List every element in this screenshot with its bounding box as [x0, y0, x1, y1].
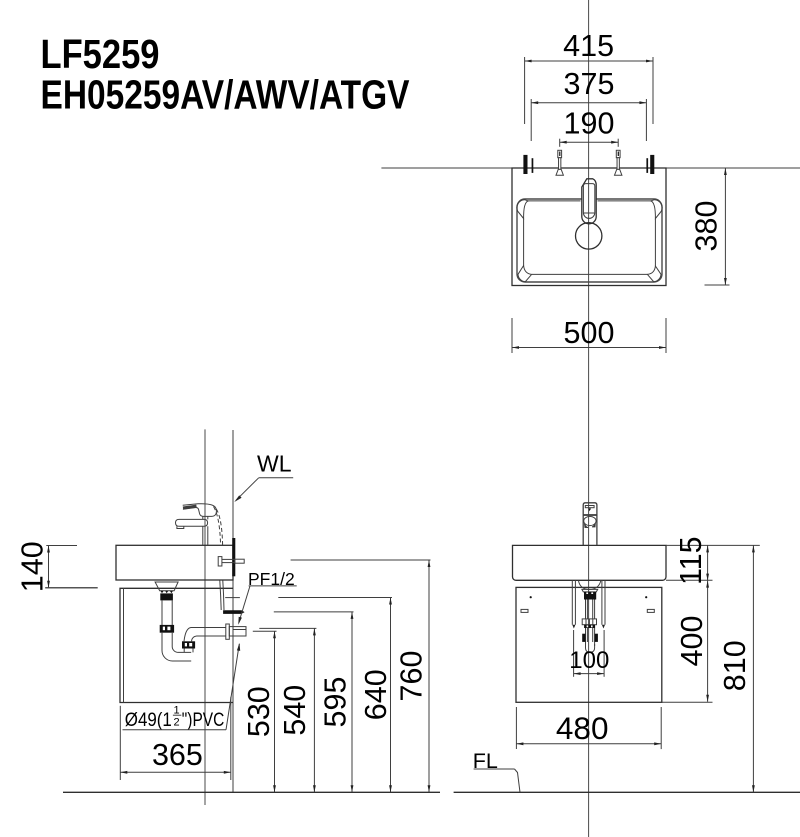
side view centerline — [204, 429, 206, 805]
WL label — [234, 451, 293, 503]
wall line (side) — [232, 430, 234, 792]
dimension 540 — [259, 628, 316, 792]
svg-text:115: 115 — [674, 536, 708, 585]
drain tailpipe upper (front) — [586, 600, 595, 619]
drain coupling ribbed (front) — [582, 619, 596, 625]
basin slab (front) — [513, 545, 667, 580]
wall mounting bolt left inner (plan) — [532, 158, 534, 173]
supply pipe right (front) — [602, 580, 605, 624]
svg-text:LF5259: LF5259 — [41, 31, 160, 77]
dimension 640 — [278, 598, 393, 793]
svg-text:")PVC: ")PVC — [182, 710, 225, 731]
svg-text:810: 810 — [718, 640, 752, 691]
dimension 595 — [274, 612, 354, 792]
dimension 400 (front right) — [675, 581, 709, 702]
dimension 380 (plan right) — [690, 168, 730, 285]
drain coupling dark band (front) — [584, 625, 595, 628]
faucet supply hoses above slab (dashed, side) — [214, 507, 221, 546]
basin bowl inner line top (plan) — [528, 200, 651, 202]
basin corner wedge top-left — [517, 200, 528, 219]
wall line (plan) — [381, 167, 800, 169]
floor line right — [454, 791, 800, 793]
dimension 760 — [291, 560, 431, 792]
svg-text:100: 100 — [569, 647, 609, 674]
drain outlet trapezoid (front) — [582, 589, 598, 592]
faucet body outline (plan) — [582, 179, 596, 224]
drain flange teeth (side) — [161, 591, 173, 593]
dimension 530 — [242, 631, 276, 792]
svg-text:140: 140 — [15, 541, 49, 592]
svg-text:595: 595 — [319, 677, 353, 728]
trap coupling nut (side, black) — [160, 625, 174, 633]
faucet inner line (plan) — [583, 184, 594, 219]
drain top nut (side, black) — [160, 593, 173, 600]
diameter 49 PVC label — [123, 643, 241, 731]
supply hoses below slab (side) — [220, 581, 221, 611]
drain hole circle (plan) — [576, 223, 602, 249]
cabinet front inner line (side) — [123, 588, 125, 702]
svg-text:760: 760 — [395, 651, 429, 702]
dimension 500 (plan bottom) — [512, 316, 666, 353]
faucet (side view) — [176, 504, 217, 545]
basin bowl inner line bottom — [532, 273, 647, 275]
basin bowl underside arc (front) — [578, 580, 601, 589]
wall drain stub (side) — [229, 627, 246, 636]
wall drain flange (side) — [226, 624, 230, 639]
svg-text:400: 400 — [675, 616, 709, 667]
drain flange under basin (side) — [155, 582, 178, 591]
FL label — [473, 749, 520, 792]
cabinet (front) — [516, 587, 662, 702]
wall mounting bolt right outer (plan) — [650, 155, 654, 174]
dimension 810 (front far right) — [718, 545, 755, 792]
dimension 415 (plan top) — [525, 29, 653, 124]
sink outer rectangle (plan) — [512, 168, 666, 286]
dimension 375 (plan) — [531, 67, 646, 141]
drain side tab left (front, black) — [582, 634, 585, 642]
PF1/2 label — [238, 569, 296, 625]
dimension 480 (front bottom) — [516, 707, 661, 749]
door pin dot right (front) — [645, 596, 647, 598]
supply pipe in wall (dark bar, side) — [232, 538, 235, 576]
hinge plate left (front) — [521, 609, 528, 612]
trap rising nut (side, black) — [182, 641, 195, 648]
drain side tab right (front, black) — [595, 634, 598, 642]
drain tailpipe lower (front) — [586, 628, 595, 646]
dimension 115 (front right) — [674, 536, 709, 585]
svg-text:500: 500 — [564, 316, 615, 350]
slab top extension line to right dims — [666, 544, 760, 546]
svg-text:EH05259AV/AWV/ATGV: EH05259AV/AWV/ATGV — [41, 71, 411, 117]
wall mounting bolt right inner (plan) — [646, 158, 648, 173]
basin slab (side) — [116, 545, 233, 580]
svg-text:2: 2 — [174, 716, 180, 728]
angle valve (side) — [218, 557, 244, 566]
svg-text:365: 365 — [152, 738, 203, 772]
faucet (front view) — [583, 503, 597, 545]
slab bottom extension line to right dims — [666, 579, 713, 581]
basin corner wedge bottom-right — [647, 266, 661, 282]
dimension 190 (plan) — [560, 107, 619, 147]
vertical centerline through plan and front views — [588, 0, 590, 837]
svg-text:WL: WL — [257, 451, 292, 477]
basin corner wedge bottom-left — [518, 266, 532, 282]
dimension 140 (side left) — [15, 541, 97, 592]
faucet hole bolt right (plan) — [615, 150, 622, 175]
svg-text:640: 640 — [359, 669, 393, 720]
svg-text:530: 530 — [242, 686, 276, 737]
faucet aerator chord (plan) — [584, 212, 595, 214]
basin bowl inner line left — [523, 219, 525, 266]
supply pipe left (front) — [572, 580, 575, 624]
hinge plate right (front) — [647, 609, 654, 612]
trap vertical pipe lower (side) — [162, 633, 172, 651]
door pin dot left (front) — [530, 596, 532, 598]
floor line left — [63, 791, 440, 793]
basin rim outer line (plan, breaks at faucet) — [517, 199, 662, 282]
drain nut (front, black) — [584, 592, 596, 600]
dimension 365 (side bottom) — [120, 697, 231, 780]
basin bowl inner line right — [654, 219, 656, 267]
trap vertical pipe upper (side) — [162, 600, 172, 625]
svg-text:415: 415 — [563, 29, 614, 63]
wall mounting bolt left outer (plan) — [523, 155, 527, 174]
basin corner wedge top-right — [651, 200, 662, 219]
svg-text:Ø49(1: Ø49(1 — [125, 710, 172, 731]
svg-text:480: 480 — [556, 710, 609, 746]
svg-text:540: 540 — [278, 685, 312, 736]
svg-text:375: 375 — [564, 67, 615, 101]
supply connector dark band (side) — [223, 610, 245, 614]
faucet hole bolt left (plan) — [556, 150, 563, 175]
cabinet (side) — [120, 588, 233, 702]
hose clip tick (side) — [225, 597, 240, 599]
drain pipe rounded end (front) — [586, 644, 595, 652]
trap upper horizontal arm (side) — [184, 628, 226, 653]
trap elbow to horizontal (side) — [162, 647, 191, 662]
svg-text:190: 190 — [564, 107, 615, 141]
cabinet bottom extension line to right dims — [662, 701, 713, 703]
svg-text:380: 380 — [690, 201, 724, 252]
dimension 100 (front) — [569, 630, 609, 677]
